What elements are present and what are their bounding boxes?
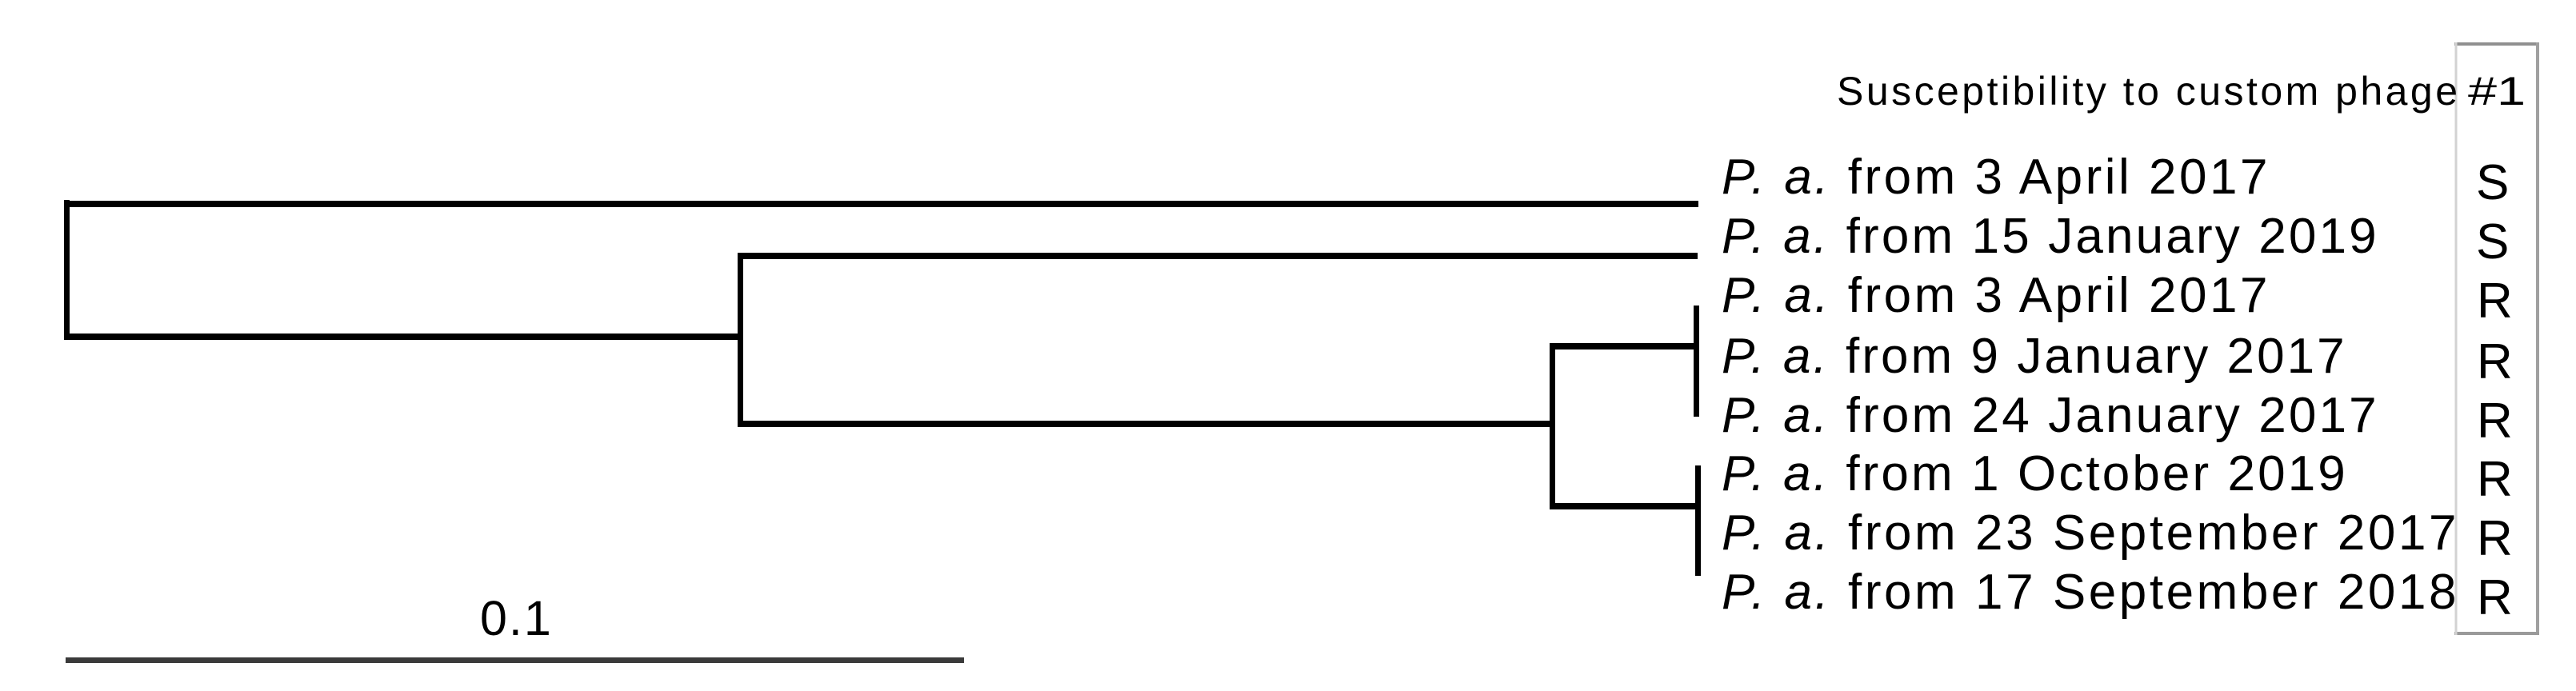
wire: branch to leaf row 1 (P. a. from 3 April 2017, S) bbox=[64, 201, 1698, 207]
wire: branch to leaf row 2 (P. a. from 15 January 2019, S) bbox=[738, 253, 1698, 259]
svg-text:P. a. from 3 April 2017: P. a. from 3 April 2017 bbox=[1722, 150, 2270, 205]
wire: branch to clade B (rows 6-8) bbox=[1550, 503, 1701, 509]
node 3 vertical connector bbox=[1550, 343, 1555, 509]
scale bar bbox=[66, 657, 964, 663]
svg-text:P. a. from 23 September 2017: P. a. from 23 September 2017 bbox=[1722, 505, 2459, 561]
svg-text:R: R bbox=[2477, 393, 2513, 449]
svg-text:P. a. from 24 January 2017: P. a. from 24 January 2017 bbox=[1722, 388, 2379, 443]
svg-text:R: R bbox=[2477, 511, 2513, 566]
wire: branch to clade A (rows 3-5) bbox=[1550, 343, 1699, 349]
svg-text:R: R bbox=[2477, 334, 2513, 389]
svg-text:R: R bbox=[2477, 570, 2513, 625]
svg-text:P. a. from 1 October 2019: P. a. from 1 October 2019 bbox=[1722, 446, 2348, 501]
svg-text:R: R bbox=[2477, 274, 2513, 329]
svg-text:S: S bbox=[2476, 214, 2509, 270]
svg-text:P. a. from 9 January 2017: P. a. from 9 January 2017 bbox=[1722, 329, 2347, 384]
root vertical connector bbox=[64, 200, 70, 340]
node 2 vertical connector bbox=[738, 253, 743, 427]
svg-text:S: S bbox=[2476, 155, 2509, 210]
svg-text:P. a. from 15 January 2019: P. a. from 15 January 2019 bbox=[1722, 209, 2379, 264]
clade A vertical connector (rows 3-5) bbox=[1694, 306, 1699, 417]
svg-text:P. a. from 17 September 2018: P. a. from 17 September 2018 bbox=[1722, 565, 2459, 620]
svg-text:Susceptibility to custom phage: Susceptibility to custom phage bbox=[1837, 69, 2458, 114]
susceptibility column box bbox=[2454, 42, 2539, 46]
svg-text:#1: #1 bbox=[2468, 69, 2526, 114]
svg-text:R: R bbox=[2477, 452, 2513, 507]
clade B vertical connector (rows 6-8) bbox=[1695, 465, 1701, 576]
svg-text:0.1: 0.1 bbox=[480, 591, 553, 645]
wire: root lower branch bbox=[64, 334, 743, 340]
wire: node 2 lower branch bbox=[738, 421, 1555, 427]
svg-text:P. a. from 3 April 2017: P. a. from 3 April 2017 bbox=[1722, 268, 2270, 323]
